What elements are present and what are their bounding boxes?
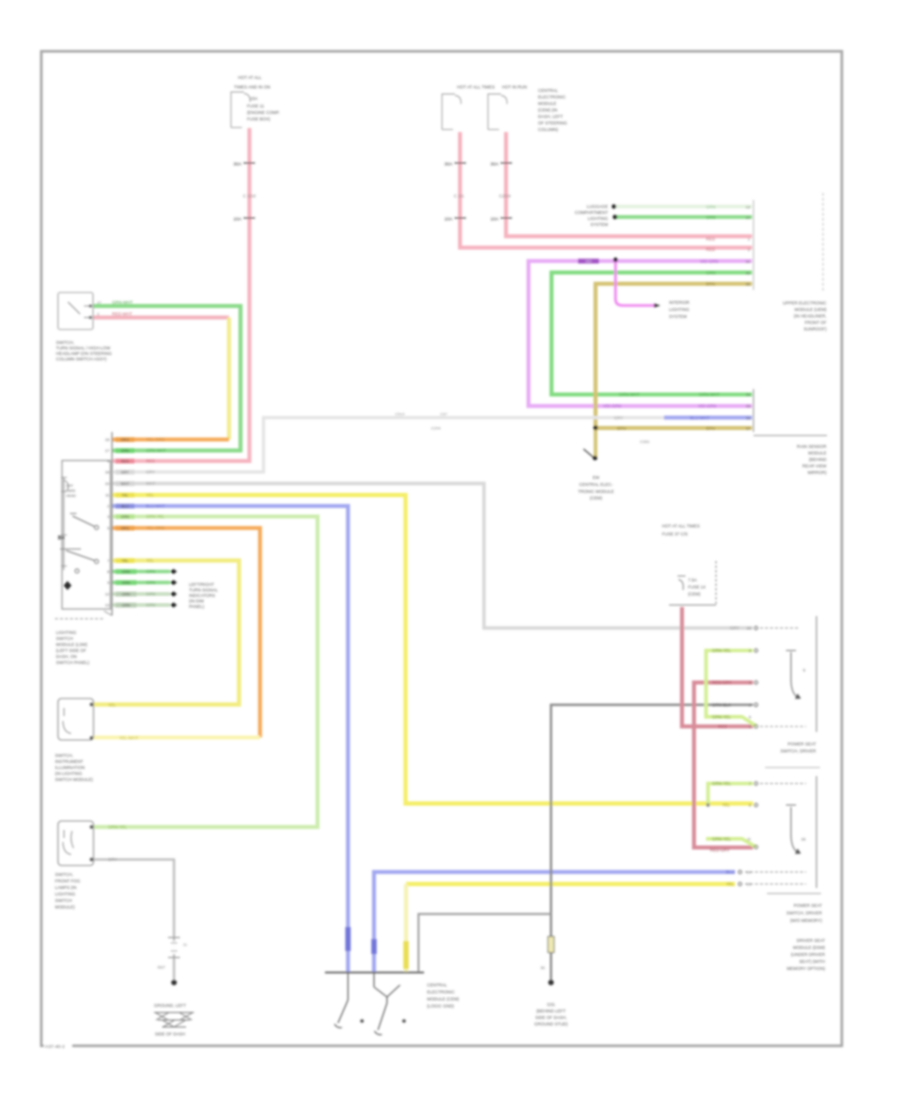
- svg-text:WHT: WHT: [146, 481, 156, 486]
- svg-text:POWER SEAT: POWER SEAT: [794, 903, 823, 908]
- svg-text:7.5A: 7.5A: [688, 578, 697, 583]
- svg-text:FUSE 14: FUSE 14: [688, 585, 706, 590]
- svg-text:SWITCH PANEL): SWITCH PANEL): [56, 660, 90, 665]
- svg-text:CENTRAL ELEC-: CENTRAL ELEC-: [579, 482, 613, 487]
- svg-text:SEAT) (WITH: SEAT) (WITH: [799, 959, 825, 964]
- svg-text:EM: EM: [593, 475, 600, 480]
- svg-text:SWITCH, DRIVER: SWITCH, DRIVER: [780, 749, 816, 754]
- svg-text:YEL: YEL: [726, 882, 735, 887]
- svg-text:LAMPS (IN: LAMPS (IN: [55, 885, 77, 890]
- svg-text:54: 54: [746, 392, 751, 397]
- svg-text:7: 7: [107, 558, 110, 563]
- svg-text:YEL: YEL: [146, 493, 155, 498]
- svg-text:FUSE 11: FUSE 11: [247, 104, 265, 109]
- svg-text:SYSTEM: SYSTEM: [590, 222, 608, 227]
- svg-text:B+: B+: [58, 536, 65, 542]
- svg-text:LIGHTING: LIGHTING: [56, 630, 77, 635]
- svg-text:GRN: GRN: [706, 270, 716, 275]
- svg-text:RED: RED: [146, 459, 155, 464]
- svg-text:RAIN SENSOR: RAIN SENSOR: [797, 444, 827, 449]
- svg-text:GRY: GRY: [121, 470, 129, 474]
- svg-text:COLUMN SWITCH ASSY): COLUMN SWITCH ASSY): [56, 357, 107, 362]
- svg-text:WHT: WHT: [121, 482, 130, 486]
- svg-text:GRN: GRN: [146, 603, 155, 608]
- svg-text:36: 36: [746, 282, 751, 287]
- svg-text:LUGGAGE: LUGGAGE: [587, 204, 608, 209]
- svg-text:31: 31: [541, 965, 546, 970]
- svg-text:C2/19: C2/19: [499, 194, 511, 199]
- svg-text:10A: 10A: [444, 217, 453, 222]
- svg-text:BLU: BLU: [726, 870, 734, 875]
- svg-text:GROUND, LEFT: GROUND, LEFT: [154, 1003, 186, 1008]
- svg-text:MODULE (DSM): MODULE (DSM): [793, 945, 826, 950]
- svg-text:INSTRUMENT: INSTRUMENT: [55, 759, 84, 764]
- svg-text:SYSTEM: SYSTEM: [669, 314, 687, 319]
- svg-text:(CEM): (CEM): [688, 592, 701, 597]
- svg-text:RED: RED: [706, 247, 715, 252]
- svg-text:57: 57: [746, 426, 751, 431]
- svg-text:13: 13: [105, 603, 110, 608]
- svg-text:31: 31: [183, 943, 187, 947]
- svg-text:ELECTRONIC: ELECTRONIC: [427, 990, 455, 995]
- svg-text:GRY: GRY: [108, 857, 117, 862]
- svg-text:HEAD: HEAD: [66, 494, 76, 498]
- svg-text:VIO: VIO: [585, 260, 591, 264]
- svg-text:3: 3: [107, 514, 110, 519]
- svg-text:YEL: YEL: [108, 702, 117, 707]
- svg-text:HOT AT ALL: HOT AT ALL: [238, 75, 262, 80]
- svg-text:GRN-WHT: GRN-WHT: [619, 392, 640, 397]
- svg-text:C510: C510: [395, 412, 405, 417]
- svg-text:12: 12: [105, 592, 110, 597]
- svg-text:RED-GRY: RED-GRY: [710, 848, 730, 853]
- svg-text:56: 56: [746, 415, 751, 420]
- svg-text:DRIVER SEAT: DRIVER SEAT: [797, 938, 826, 943]
- svg-text:SWITCH,: SWITCH,: [55, 872, 73, 877]
- svg-text:GRN: GRN: [122, 592, 131, 596]
- svg-text:2: 2: [107, 504, 110, 509]
- svg-text:(CEM): (CEM): [590, 496, 603, 501]
- svg-text:SWITCH: SWITCH: [55, 898, 72, 903]
- svg-text:10: 10: [746, 215, 751, 220]
- svg-text:16: 16: [105, 470, 110, 475]
- svg-text:YEL-WHT: YEL-WHT: [119, 736, 139, 741]
- svg-text:(LOGIC GND): (LOGIC GND): [427, 1004, 455, 1009]
- svg-text:GRY: GRY: [146, 470, 155, 475]
- svg-text:GRN-YEL: GRN-YEL: [108, 825, 128, 830]
- svg-text:C 1/1: C 1/1: [454, 194, 465, 199]
- svg-text:DASH, LEFT: DASH, LEFT: [538, 114, 563, 119]
- svg-text:ORG: ORG: [121, 438, 130, 442]
- svg-text:SIDE OF DASH: SIDE OF DASH: [155, 1032, 185, 1037]
- svg-text:10A: 10A: [233, 217, 242, 222]
- svg-text:17: 17: [97, 301, 101, 305]
- svg-text:G17: G17: [157, 965, 165, 970]
- svg-text:SWITCH MODULE): SWITCH MODULE): [55, 777, 94, 782]
- svg-text:14: 14: [747, 870, 752, 875]
- svg-text:MODULE (LSM): MODULE (LSM): [56, 642, 88, 647]
- svg-text:G31: G31: [547, 1002, 556, 1007]
- svg-text:COMPARTMENT: COMPARTMENT: [575, 210, 609, 215]
- svg-text:LEFT/RIGHT: LEFT/RIGHT: [189, 582, 214, 587]
- svg-text:30A: 30A: [444, 162, 453, 167]
- svg-text:RED: RED: [706, 236, 715, 241]
- svg-text:MODULE): MODULE): [55, 905, 75, 910]
- svg-text:3: 3: [97, 313, 99, 317]
- svg-text:15: 15: [747, 882, 752, 887]
- svg-text:GRY: GRY: [614, 415, 623, 420]
- svg-text:(LEFT SIDE OF: (LEFT SIDE OF: [56, 648, 87, 653]
- svg-text:(IN DIM: (IN DIM: [189, 599, 204, 604]
- svg-text:55: 55: [746, 404, 751, 409]
- svg-text:8: 8: [107, 569, 110, 574]
- svg-text:YEL-ORG: YEL-ORG: [146, 526, 165, 531]
- svg-text:CENTRAL: CENTRAL: [427, 983, 448, 988]
- svg-text:YEL-ORG: YEL-ORG: [146, 437, 165, 442]
- svg-text:(CEM) (IN: (CEM) (IN: [538, 108, 557, 113]
- svg-text:REAR VIEW: REAR VIEW: [802, 464, 827, 469]
- svg-text:VIO-GRN: VIO-GRN: [698, 404, 716, 409]
- svg-text:LIGHTING: LIGHTING: [55, 892, 76, 897]
- svg-text:BLU: BLU: [121, 504, 129, 508]
- svg-text:GRY: GRY: [730, 626, 739, 631]
- svg-text:C331: C331: [640, 439, 650, 444]
- svg-text:HOT IN RUN: HOT IN RUN: [502, 85, 527, 90]
- svg-text:GRN-WHT: GRN-WHT: [112, 300, 133, 305]
- svg-text:HOT AT ALL TIMES: HOT AT ALL TIMES: [662, 524, 700, 529]
- svg-text:6: 6: [749, 714, 752, 719]
- svg-text:GRN-WHT: GRN-WHT: [699, 392, 720, 397]
- svg-text:FRONT OF: FRONT OF: [805, 320, 827, 325]
- svg-text:PANEL): PANEL): [189, 604, 205, 609]
- svg-text:GRN: GRN: [121, 515, 130, 519]
- svg-text:GRN: GRN: [706, 204, 716, 209]
- svg-text:10: 10: [747, 626, 752, 631]
- svg-text:GRN: GRN: [146, 569, 155, 574]
- svg-text:SWITCH,: SWITCH,: [56, 340, 74, 345]
- svg-text:(ENGINE COMP.: (ENGINE COMP.: [247, 110, 280, 115]
- svg-text:GRN-YEL: GRN-YEL: [146, 514, 165, 519]
- svg-text:30A: 30A: [233, 162, 242, 167]
- svg-text:SUNROOF): SUNROOF): [804, 327, 827, 332]
- svg-text:10: 10: [105, 481, 110, 486]
- svg-text:COLUMN): COLUMN): [538, 127, 559, 132]
- svg-text:GRN-WHT: GRN-WHT: [146, 448, 167, 453]
- svg-text:35: 35: [746, 270, 751, 275]
- svg-text:GRN-YEL: GRN-YEL: [712, 714, 732, 719]
- svg-text:GRN-YEL: GRN-YEL: [712, 648, 732, 653]
- svg-text:GRN-YEL: GRN-YEL: [712, 781, 732, 786]
- svg-text:HEADLAMP (ON STEERING: HEADLAMP (ON STEERING: [56, 351, 112, 356]
- svg-text:MODULE: MODULE: [538, 101, 557, 106]
- svg-text:GRN: GRN: [146, 580, 155, 585]
- svg-text:RED: RED: [121, 459, 129, 463]
- svg-text:BLU-WHT: BLU-WHT: [146, 504, 166, 509]
- svg-text:SWITCH: SWITCH: [56, 636, 73, 641]
- svg-text:15A: 15A: [250, 96, 258, 101]
- svg-text:ORG: ORG: [121, 526, 130, 530]
- svg-text:34: 34: [746, 259, 751, 264]
- svg-text:(BEHIND LEFT: (BEHIND LEFT: [536, 1009, 566, 1014]
- svg-text:C204: C204: [431, 426, 441, 431]
- svg-text:SWITCH, DRIVER: SWITCH, DRIVER: [786, 911, 822, 916]
- svg-text:GROUND STUD): GROUND STUD): [534, 1022, 568, 1027]
- svg-text:(UNDER DRIVER: (UNDER DRIVER: [791, 952, 825, 957]
- svg-text:YEL: YEL: [146, 558, 155, 563]
- svg-text:30A: 30A: [490, 162, 499, 167]
- svg-text:BRN: BRN: [706, 426, 715, 431]
- svg-text:GRN: GRN: [706, 215, 716, 220]
- svg-text:(BEHIND: (BEHIND: [809, 457, 827, 462]
- svg-text:5: 5: [107, 526, 110, 531]
- svg-text:INTERIOR: INTERIOR: [669, 300, 690, 305]
- svg-text:UPPER ELECTRONIC: UPPER ELECTRONIC: [783, 301, 827, 306]
- svg-text:INDICATORS: INDICATORS: [189, 593, 215, 598]
- svg-text:ILLUMINATION: ILLUMINATION: [55, 765, 85, 770]
- svg-text:GRN: GRN: [122, 603, 131, 607]
- svg-text:OFF: OFF: [66, 484, 74, 488]
- svg-text:9: 9: [107, 580, 110, 585]
- svg-text:MODULE (CEM): MODULE (CEM): [427, 997, 460, 1002]
- svg-text:HOT AT ALL TIMES: HOT AT ALL TIMES: [457, 85, 495, 90]
- svg-text:GRN-YEL: GRN-YEL: [712, 836, 732, 841]
- svg-text:17: 17: [105, 448, 110, 453]
- svg-text:POWER SEAT: POWER SEAT: [788, 742, 817, 747]
- svg-text:SIDE OF DASH,: SIDE OF DASH,: [535, 1015, 567, 1020]
- svg-text:MIRROR): MIRROR): [808, 470, 827, 475]
- svg-text:YEL: YEL: [122, 559, 129, 563]
- svg-text:11: 11: [105, 493, 110, 498]
- svg-text:PARK: PARK: [66, 489, 76, 493]
- svg-text:TURN SIGNAL / HIGH-LOW: TURN SIGNAL / HIGH-LOW: [56, 346, 111, 351]
- svg-text:GRN: GRN: [122, 570, 131, 574]
- svg-text:(W/O MEMORY): (W/O MEMORY): [790, 918, 822, 923]
- svg-text:TURN SIGNAL: TURN SIGNAL: [189, 588, 218, 593]
- svg-text:FUSE BOX): FUSE BOX): [247, 117, 271, 122]
- svg-text:TRONIC MODULE: TRONIC MODULE: [578, 489, 614, 494]
- svg-text:GRN: GRN: [121, 449, 130, 453]
- svg-text:RED: RED: [718, 724, 727, 729]
- svg-text:BLU-WHT: BLU-WHT: [690, 415, 710, 420]
- svg-text:C 1/10: C 1/10: [243, 194, 256, 199]
- svg-text:YEL: YEL: [122, 493, 129, 497]
- svg-text:11: 11: [747, 836, 752, 841]
- svg-text:(IN HEADLINER,: (IN HEADLINER,: [794, 314, 827, 319]
- svg-text:YEL: YEL: [722, 803, 731, 808]
- svg-text:BRN: BRN: [706, 282, 715, 287]
- svg-text:5: 5: [803, 668, 806, 673]
- svg-text:FUSE 37 C/S: FUSE 37 C/S: [662, 532, 688, 537]
- svg-text:VIO-GRN: VIO-GRN: [700, 259, 718, 264]
- svg-text:16: 16: [801, 837, 806, 842]
- svg-text:DASH, ON: DASH, ON: [56, 654, 77, 659]
- svg-text:GRN: GRN: [146, 592, 155, 597]
- svg-text:13: 13: [746, 204, 751, 209]
- svg-text:MEMORY OPTION): MEMORY OPTION): [787, 966, 826, 971]
- svg-text:TIMES AND IN ON: TIMES AND IN ON: [234, 85, 270, 90]
- svg-text:SWITCH,: SWITCH,: [55, 753, 73, 758]
- svg-text:LIGHTING: LIGHTING: [669, 307, 690, 312]
- svg-text:A37-40-2: A37-40-2: [45, 1044, 65, 1050]
- svg-text:15: 15: [105, 437, 110, 442]
- svg-text:ELECTRONIC: ELECTRONIC: [538, 95, 566, 100]
- svg-text:GRN-BLK: GRN-BLK: [712, 702, 731, 707]
- svg-text:(IN LIGHTING: (IN LIGHTING: [55, 771, 83, 776]
- svg-text:LIGHTING: LIGHTING: [588, 216, 609, 221]
- svg-text:RED-WHT: RED-WHT: [112, 312, 133, 317]
- svg-text:CENTRAL: CENTRAL: [538, 88, 559, 93]
- svg-text:MODULE (UEM): MODULE (UEM): [795, 307, 828, 312]
- svg-text:BRN: BRN: [617, 426, 626, 431]
- svg-text:C67: C67: [440, 412, 448, 417]
- svg-text:10A: 10A: [490, 217, 499, 222]
- svg-text:FRONT FOG: FRONT FOG: [55, 879, 81, 884]
- svg-text:GRN: GRN: [122, 581, 131, 585]
- svg-text:OF STEERING: OF STEERING: [538, 121, 568, 126]
- svg-text:MODULE: MODULE: [808, 451, 827, 456]
- svg-text:VIO-GRN: VIO-GRN: [603, 404, 621, 409]
- svg-text:RED-GRY: RED-GRY: [712, 680, 732, 685]
